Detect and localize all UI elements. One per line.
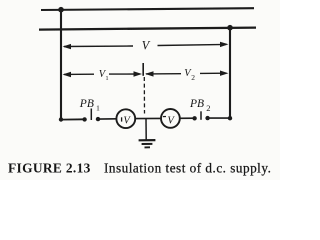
voltmeter +V body — [116, 109, 135, 128]
wire: second d.c. supply bus line — [39, 28, 256, 30]
svg-text:V: V — [123, 116, 131, 127]
svg-text:V: V — [167, 115, 175, 126]
wire: between voltmeters — [135, 117, 161, 119]
voltmeter -V polarity mark — [163, 116, 166, 118]
push button PB2 contact dots — [192, 116, 196, 120]
svg-text:V: V — [142, 38, 151, 52]
svg-text:PB: PB — [79, 98, 94, 110]
push button PB2 actuator — [200, 111, 202, 120]
arrowhead V1 right — [134, 71, 143, 76]
ground stem — [145, 119, 147, 140]
node: junction dot left tap on top bus — [58, 7, 64, 13]
dimension arrow V1 (right segment) — [109, 73, 140, 75]
dimension arrow V1 (left segment) — [64, 73, 94, 75]
wire: bottom left segment to PB1 — [61, 118, 85, 120]
ground bar 2 — [142, 143, 153, 145]
node: bottom-left corner dot — [59, 117, 63, 121]
dimension separator bar at centre — [142, 63, 144, 76]
dimension arrow V (left segment) — [64, 45, 133, 48]
dimension arrow V (right segment) — [158, 44, 227, 45]
wire: right voltmeter to PB2 — [180, 117, 195, 119]
node: bottom-right corner dot — [228, 116, 232, 120]
arrowhead V1 left — [63, 72, 72, 77]
wire: dashed earth reference line — [143, 77, 145, 114]
wire: PB2 to bottom right corner — [208, 117, 230, 119]
arrowhead V2 right — [220, 71, 229, 76]
wire: left vertical tap — [60, 9, 62, 120]
voltmeter -V body — [161, 109, 180, 128]
svg-text:PB: PB — [189, 98, 204, 110]
push button PB1 contact dots — [82, 117, 86, 121]
wire: top d.c. supply bus line — [41, 8, 254, 10]
wire: right vertical tap — [229, 28, 231, 119]
arrowhead V right — [220, 42, 229, 47]
push button PB1 actuator — [90, 109, 92, 121]
svg-text:2: 2 — [206, 103, 210, 113]
wire: PB1 to left voltmeter — [98, 118, 116, 120]
ground bar 1 — [139, 139, 156, 141]
arrowhead V left — [63, 44, 72, 49]
svg-text:1: 1 — [96, 104, 100, 113]
svg-text:1: 1 — [105, 75, 108, 82]
ground bar 3 — [145, 146, 151, 148]
dimension arrow V2 (right segment) — [200, 72, 227, 74]
svg-text:Insulation test of d.c. supply: Insulation test of d.c. supply. — [104, 160, 271, 175]
voltmeter +V polarity tick — [121, 117, 123, 121]
svg-text:FIGURE 2.13: FIGURE 2.13 — [8, 160, 91, 175]
arrowhead V2 left — [145, 71, 154, 76]
node: junction dot right tap on second bus — [227, 25, 233, 31]
svg-text:2: 2 — [191, 73, 195, 82]
dimension arrow V2 (left segment) — [146, 73, 181, 75]
